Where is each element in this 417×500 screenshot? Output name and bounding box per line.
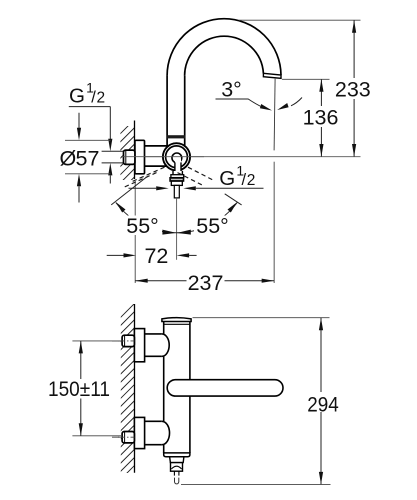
body top cap (162, 318, 191, 322)
body bottom cap (164, 453, 190, 457)
supply pipe stub lines (102, 150, 124, 152)
diverter neck (bottom view) (170, 457, 184, 463)
supply center line upper (112, 340, 134, 342)
55-degree arc right (177, 203, 238, 233)
diverter hose U (175, 478, 179, 484)
spout arc outer (167, 19, 281, 76)
3-degree label and leader (216, 78, 303, 111)
svg-text:2: 2 (247, 172, 256, 189)
center line overlay through mount (121, 156, 204, 158)
svg-text:55°: 55° (126, 214, 159, 238)
water stream line (274, 79, 275, 151)
wall surface line (bottom view) (134, 304, 136, 473)
svg-text:150±11: 150±11 (48, 377, 110, 401)
valve circle outer (163, 143, 190, 170)
svg-text:57: 57 (76, 146, 100, 170)
upper union connector (145, 333, 162, 335)
svg-text:Ø: Ø (60, 146, 77, 170)
swivel range dashed outline left (124, 167, 165, 187)
valve circle middle (166, 146, 188, 168)
diverter knob (171, 463, 183, 472)
stream extension line down to 237 dim (273, 162, 275, 283)
upper hex nut (122, 335, 134, 346)
svg-text:136: 136 (303, 106, 339, 130)
wall extension line down to 72/237 dims (134, 181, 136, 283)
dimension Ø57 (60, 113, 111, 203)
svg-text:G: G (69, 84, 85, 107)
wall surface line (top view) (134, 121, 136, 180)
wall hatching (top view) (112, 112, 142, 199)
valve body cylinder (145, 145, 170, 147)
55-degree arc arrowheads (116, 202, 126, 212)
swivel range dashed outline right (178, 167, 215, 185)
diverter collar (171, 175, 184, 178)
lower hex nut (122, 432, 134, 443)
dimension 136 (282, 79, 338, 156)
hex union nut (top view) (124, 150, 135, 164)
aerator (263, 73, 281, 78)
supply center line lower (112, 436, 134, 438)
diverter lower body (171, 181, 182, 185)
upper escutcheon (134, 329, 144, 362)
svg-text:G: G (219, 167, 235, 190)
dimension 233 (239, 20, 371, 156)
55-degree label left (126, 214, 162, 238)
body left edge (163, 322, 165, 334)
escutcheon (top view) (135, 140, 145, 174)
svg-text:237: 237 (188, 271, 224, 295)
G 1/2 label right of diverter (129, 162, 264, 190)
vertical center line below diverter (176, 198, 178, 260)
55-degree ray extension right (225, 194, 242, 205)
lower union connector (145, 420, 162, 422)
lower escutcheon (134, 417, 144, 448)
riser pipe (166, 76, 168, 148)
diverter neck (175, 159, 181, 172)
dimension 294 (181, 318, 339, 485)
valve circle inner (172, 153, 182, 163)
svg-text:/: / (242, 171, 247, 189)
lever handle (167, 380, 283, 396)
svg-text:233: 233 (335, 78, 371, 102)
55-degree ray extension left (111, 177, 147, 205)
svg-text:3°: 3° (221, 78, 242, 102)
svg-text:55°: 55° (196, 214, 229, 238)
svg-text:/: / (91, 88, 96, 106)
diverter stem (173, 471, 175, 475)
spout arc inner (185, 36, 264, 75)
svg-text:72: 72 (144, 244, 168, 268)
55-degree arc left (116, 203, 177, 233)
55-degree label right (194, 214, 230, 238)
wall hatching (bottom view) (112, 296, 142, 500)
body right edge (189, 322, 191, 454)
diverter thread band (170, 178, 184, 182)
diverter tip (174, 185, 179, 198)
dimension 72 (107, 244, 197, 268)
svg-text:294: 294 (307, 392, 339, 416)
svg-text:2: 2 (97, 89, 106, 106)
dimension 150±11 (46, 341, 122, 436)
horizontal center line of valve (121, 156, 361, 158)
dimension 237 (135, 271, 274, 295)
G 1/2 label top-left (69, 80, 113, 184)
